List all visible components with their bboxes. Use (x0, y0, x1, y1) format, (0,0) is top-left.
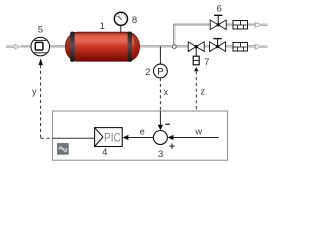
tank 1 (65, 32, 139, 62)
wire e line (128, 137, 154, 139)
svg-text:x: x (164, 87, 169, 97)
compressor 5 (31, 37, 50, 56)
svg-text:2: 2 (145, 67, 150, 78)
wire upper restrictor to output (248, 24, 256, 25)
signal x dashed (159, 78, 161, 111)
wire pipe lower valve to restrictor (226, 46, 233, 47)
restrictor upper (233, 21, 248, 30)
svg-text:8: 8 (132, 15, 137, 26)
wire x solid into summer (159, 111, 161, 125)
output flow arrow upper (255, 23, 267, 28)
wire pipe tank to valve V7 (139, 46, 188, 47)
wire pipe compressor to tank (50, 46, 67, 47)
svg-text:4: 4 (102, 147, 107, 158)
wire upper valve to restrictor (226, 24, 232, 25)
wire upper pipe to valve V6 (174, 24, 211, 25)
svg-text:6: 6 (217, 3, 222, 14)
wire w line (173, 137, 218, 139)
arrowhead y up (39, 58, 43, 65)
svg-text:7: 7 (204, 57, 209, 68)
hand valve lower (210, 39, 226, 52)
svg-text:e: e (140, 126, 145, 136)
svg-text:1: 1 (100, 21, 105, 32)
arrowhead e left (122, 135, 128, 140)
wire pipe lower restrictor to output (248, 46, 256, 47)
gauge 8 (114, 12, 127, 32)
svg-text:P: P (157, 67, 163, 78)
wire branch vertical to upper pipe (174, 24, 175, 46)
wire y inside box (53, 137, 95, 139)
valve 7 (188, 42, 204, 65)
signal z dashed (195, 71, 197, 111)
output flow arrow lower (255, 44, 267, 49)
pressure sensor 2 (154, 47, 168, 78)
svg-text:5: 5 (38, 25, 43, 36)
wire pipe between lower valves (204, 46, 210, 47)
valve 6 (210, 15, 226, 29)
minus sign (165, 123, 170, 125)
signal y dashed (41, 65, 53, 138)
svg-text:y: y (32, 86, 37, 96)
svg-text:z: z (201, 87, 206, 97)
plus sign (169, 144, 174, 149)
junction node (172, 45, 176, 49)
controller box (53, 111, 228, 160)
electrical AC icon (58, 144, 69, 155)
input flow arrow (6, 44, 19, 49)
PIC controller 4 (95, 128, 123, 147)
arrowhead w left (168, 135, 174, 140)
restrictor lower (233, 43, 248, 52)
arrowhead z up (194, 67, 198, 71)
svg-text:PIC: PIC (104, 132, 121, 144)
svg-text:w: w (194, 126, 202, 136)
wire pipe input to compressor (21, 46, 32, 47)
summing junction 3 (153, 131, 167, 145)
svg-text:3: 3 (158, 149, 163, 160)
arrowhead x down (158, 125, 163, 131)
